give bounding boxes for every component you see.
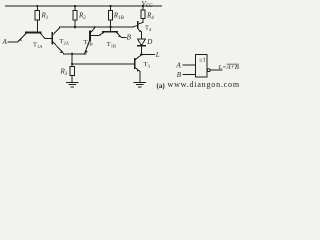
svg-text:≥1: ≥1 bbox=[199, 58, 205, 64]
ground under T3 bbox=[134, 82, 146, 84]
node R2-bus bbox=[74, 26, 76, 28]
transistor T3 bbox=[134, 59, 136, 68]
svg-text:(a): (a) bbox=[157, 82, 166, 90]
node rail-R2 bbox=[74, 5, 76, 7]
wire to T3 base bbox=[72, 63, 134, 65]
wire T3 emitter down bbox=[139, 71, 141, 82]
transistor T4 bbox=[137, 22, 139, 28]
node emitter bus bbox=[71, 53, 73, 55]
wire input A bbox=[8, 41, 18, 43]
wire T2 collector bus to T4 base bbox=[60, 25, 138, 27]
node rail-R4 bbox=[142, 5, 144, 7]
wire gate output bbox=[210, 69, 222, 71]
resistor R1 bbox=[36, 6, 38, 11]
transistor T2B bbox=[89, 32, 91, 41]
node R3 top bbox=[71, 63, 73, 65]
node rail-R1 bbox=[36, 5, 38, 7]
resistor R2 bbox=[74, 6, 76, 11]
node rail-R1B bbox=[109, 5, 111, 7]
svg-text:A: A bbox=[2, 38, 8, 46]
node T2B-collector-bus bbox=[94, 26, 96, 28]
svg-text:B: B bbox=[177, 71, 182, 79]
svg-text:D: D bbox=[146, 38, 152, 46]
svg-text:www.diangon.com: www.diangon.com bbox=[168, 80, 240, 89]
transistor T2A bbox=[51, 33, 53, 44]
svg-text:B: B bbox=[127, 34, 132, 42]
diode D bbox=[138, 39, 146, 45]
wire input B bbox=[122, 37, 127, 39]
node diode-L bbox=[140, 53, 143, 56]
wire T4 emitter to diode bbox=[141, 32, 143, 39]
wire T1A collector to T2A base bbox=[45, 38, 52, 40]
svg-text:A: A bbox=[176, 61, 182, 69]
wire emitter bus T2A-T2B bbox=[64, 53, 87, 55]
transistor T1A bbox=[26, 32, 41, 34]
resistor R3 bbox=[71, 64, 73, 67]
gate box U1 bbox=[196, 54, 208, 77]
wire output L bbox=[142, 53, 155, 55]
wire emitter bus down bbox=[71, 54, 73, 64]
node R1B-bus crossing bbox=[109, 26, 111, 28]
transistor T1B bbox=[103, 31, 117, 33]
wire Vcc rail bbox=[6, 5, 162, 7]
ground under R3 bbox=[66, 82, 78, 84]
gate output bubble bbox=[207, 69, 210, 72]
svg-text:L: L bbox=[155, 51, 160, 59]
resistor R4 bbox=[142, 6, 144, 10]
resistor R1B bbox=[110, 6, 112, 11]
wire gate input A bbox=[183, 64, 196, 66]
wire T1B collector to T2B base bbox=[91, 33, 104, 36]
svg-text:L=A+B: L=A+B bbox=[218, 64, 239, 71]
wire gate input B bbox=[183, 74, 196, 76]
